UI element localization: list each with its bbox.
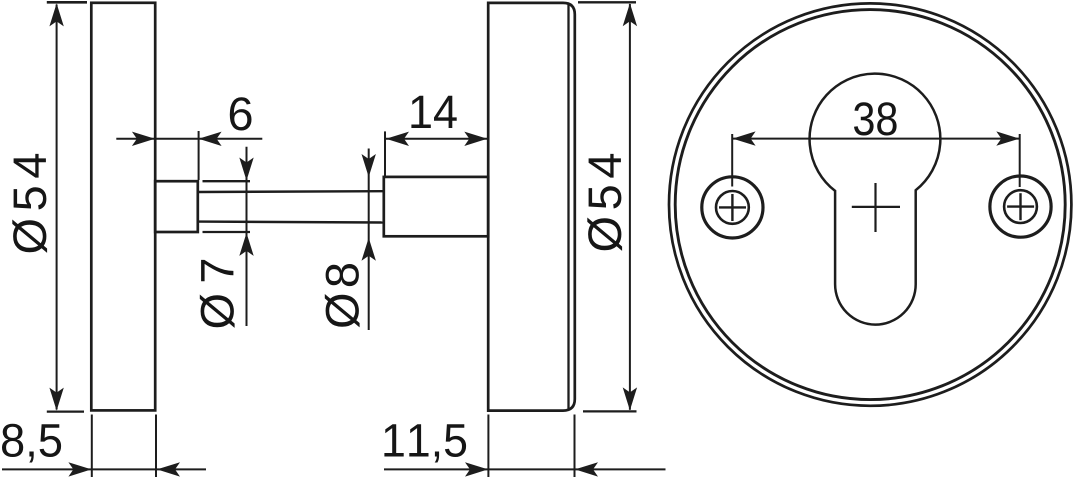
front rosette outer circle [669, 3, 1071, 405]
dimension Ø7: label [200, 260, 235, 328]
dimension Ø54 left: arrow down [49, 388, 63, 411]
dimension 38: extension line right [1019, 134, 1021, 187]
dimension 6: extension line [198, 131, 200, 180]
left screw hole outer [702, 177, 763, 238]
dimension 6: label [230, 97, 252, 130]
dimension Ø54 right: label [587, 154, 622, 251]
spindle top line [198, 190, 384, 193]
center cross vertical [874, 183, 876, 232]
dimension 11,5: arrow left [575, 462, 598, 476]
dimension 14: arrow right [464, 132, 487, 146]
spindle bottom line [198, 220, 384, 223]
dimension Ø54 right: extension line top [578, 1, 636, 3]
front rosette inner circle [675, 10, 1065, 400]
boss top extension segment [203, 180, 251, 182]
dimension 38: label [854, 102, 897, 135]
dimension 8,5: label [2, 424, 61, 463]
dimension 8,5: extension line right [155, 415, 157, 478]
dimension Ø54 right: dimension line [629, 4, 631, 410]
right boss Ø8 [384, 177, 488, 236]
dimension 38: arrow left [733, 131, 756, 145]
dimension 11,5: extension line left [487, 415, 489, 478]
dimension Ø54 left: extension line bottom [47, 411, 84, 413]
dimension 11,5: tail right [575, 468, 666, 470]
dimension 11,5: dimension line [384, 468, 575, 470]
dimension Ø8: arrow down [362, 154, 376, 177]
right screw hole inner [1004, 190, 1037, 223]
right screw hole outer [990, 176, 1051, 237]
dimension Ø7: upper dimension line [246, 147, 248, 326]
left boss Ø7 [155, 181, 198, 232]
dimension Ø54 right: extension line bottom [583, 410, 637, 412]
dimension 38: arrow right [996, 131, 1019, 145]
dimension 8,5: tail right [157, 468, 206, 470]
right plate face edge line [567, 4, 569, 409]
dimension 6: arrow left [199, 132, 222, 146]
boss bottom extension segment [203, 231, 251, 233]
left screw cross vertical [731, 194, 733, 221]
dimension Ø54 left: dimension line [56, 5, 58, 410]
dimension 11,5: extension line right [574, 415, 576, 478]
profile cylinder keyhole [810, 74, 941, 325]
dimension 14: extension line [384, 131, 386, 176]
dimension Ø54 right: arrow down [623, 387, 637, 410]
dimension Ø8: label [325, 264, 360, 327]
dimension 6: arrow right [132, 132, 155, 146]
right plate (side view rosette Ø54, rounded face) [488, 3, 575, 411]
right screw cross horizontal [1007, 205, 1034, 207]
dimension Ø54 left: arrow up [49, 3, 63, 26]
left screw cross horizontal [719, 206, 746, 208]
left screw hole inner [716, 191, 749, 224]
dimension Ø7: arrow down [239, 158, 253, 181]
dimension 38: extension line left [731, 134, 733, 187]
dimension 8,5: arrow right [68, 462, 91, 476]
dimension 8,5: extension line left [91, 415, 93, 478]
dimension 11,5: arrow right [465, 462, 488, 476]
dimension 14: label [411, 96, 456, 128]
dimension Ø54 right: arrow up [623, 3, 637, 26]
dimension Ø7: arrow up [239, 233, 253, 256]
dimension Ø8: upper dimension line [368, 149, 370, 331]
right screw cross vertical [1019, 193, 1021, 220]
dimension Ø54 left: extension line top [47, 1, 87, 4]
dimension Ø54 left: label [12, 154, 47, 253]
dimension 14: arrow left [386, 132, 409, 146]
center cross horizontal [852, 206, 900, 208]
dimension 11,5: label [384, 424, 466, 462]
dimension 6: dimension line [116, 138, 262, 140]
dimension Ø8: arrow up [362, 238, 376, 261]
dimension 38: dimension line [732, 138, 1020, 140]
dimension 14: dimension line [385, 138, 488, 140]
dimension 8,5: arrow left [157, 462, 180, 476]
dimension 8,5: dimension line [2, 468, 157, 470]
left plate (side view rosette Ø54) [91, 3, 155, 411]
